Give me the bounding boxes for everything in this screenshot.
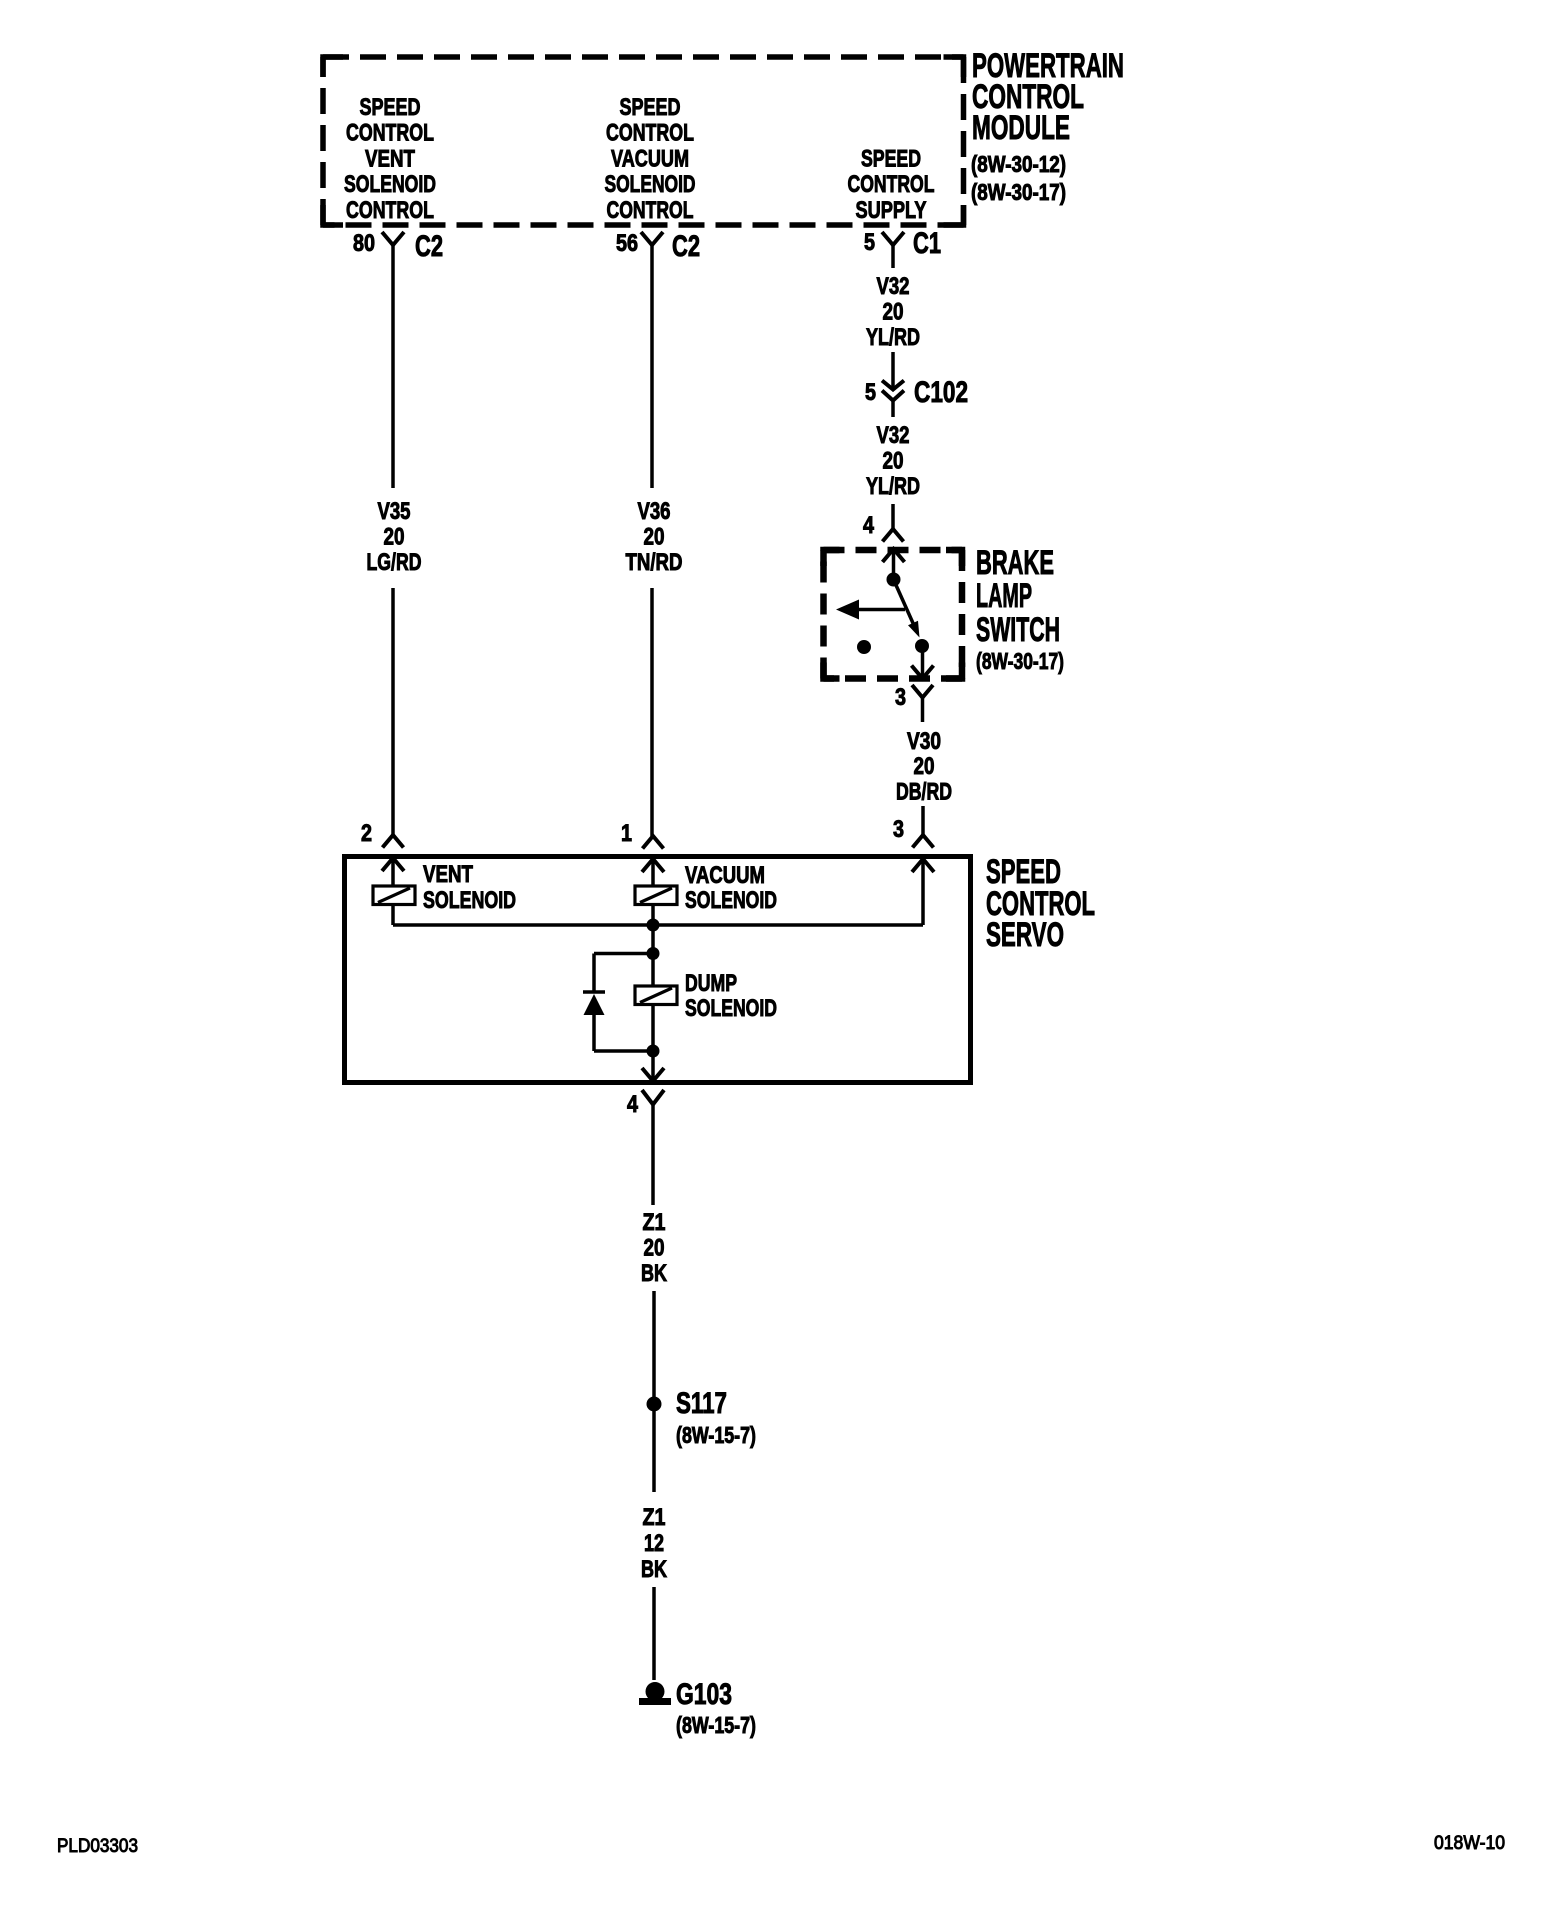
wire Z1 12 BK lower segment (652, 1587, 656, 1680)
clamp diode (583, 990, 605, 994)
vacuum solenoid (635, 886, 677, 905)
svg-text:CONTROL: CONTROL (607, 197, 694, 224)
svg-text:YL/RD: YL/RD (866, 324, 920, 351)
wire Z1 20 BK lower segment (652, 1291, 656, 1397)
svg-text:3: 3 (895, 684, 906, 711)
svg-text:1: 1 (621, 820, 632, 847)
svg-text:BK: BK (641, 1260, 667, 1287)
svg-text:(8W-15-7): (8W-15-7) (676, 1422, 756, 1448)
svg-text:56: 56 (616, 230, 638, 257)
svg-text:4: 4 (627, 1091, 639, 1118)
junction dot at bus (647, 919, 660, 932)
brake switch actuator arrow (left) (857, 608, 905, 612)
servo exit arrow pin 4 (642, 1068, 664, 1081)
svg-text:(8W-15-7): (8W-15-7) (676, 1712, 756, 1738)
svg-text:CONTROL: CONTROL (848, 171, 935, 198)
svg-text:S117: S117 (676, 1387, 727, 1420)
wire Z1 12 BK upper segment (652, 1411, 656, 1492)
servo pin 2 male arrow (382, 858, 404, 871)
svg-text:V30: V30 (907, 728, 941, 755)
svg-text:2: 2 (361, 820, 372, 847)
wire vent solenoid to bus (391, 905, 395, 926)
svg-text:VACUUM: VACUUM (685, 862, 765, 889)
svg-text:CONTROL: CONTROL (606, 120, 694, 147)
brake switch output contact node (915, 639, 929, 653)
servo pin 1 male arrow (642, 859, 664, 872)
wire dump solenoid to exit (651, 1005, 655, 1082)
svg-text:SWITCH: SWITCH (976, 611, 1060, 649)
ground G103 symbol (646, 1682, 665, 1701)
wire V36 lower segment (650, 588, 654, 836)
svg-text:SOLENOID: SOLENOID (605, 171, 696, 198)
svg-text:(8W-30-17): (8W-30-17) (976, 648, 1064, 674)
svg-text:V32: V32 (877, 422, 910, 449)
svg-text:C2: C2 (415, 230, 443, 263)
svg-text:LG/RD: LG/RD (367, 549, 422, 576)
brake switch movable blade with arrowhead (894, 580, 915, 627)
svg-text:80: 80 (353, 230, 375, 257)
svg-text:Z1: Z1 (643, 1504, 666, 1531)
svg-text:VENT: VENT (365, 145, 415, 172)
brake lamp switch dashed box (824, 550, 963, 679)
svg-text:SPEED: SPEED (861, 145, 921, 172)
svg-text:5: 5 (864, 229, 875, 256)
clamp diode branch (594, 952, 653, 956)
wire V36 upper segment (650, 245, 654, 488)
svg-text:018W-10: 018W-10 (1434, 1833, 1505, 1854)
ground bus inside servo (393, 923, 923, 927)
svg-text:20: 20 (644, 524, 665, 551)
wire V35 lower segment (391, 588, 395, 835)
svg-text:12: 12 (644, 1530, 664, 1557)
svg-text:YL/RD: YL/RD (866, 473, 920, 500)
svg-text:DB/RD: DB/RD (896, 779, 952, 806)
dump solenoid (635, 986, 677, 1005)
wire V35 upper segment (391, 245, 395, 488)
svg-text:20: 20 (883, 448, 904, 475)
wire V32 segment above C102 (891, 245, 895, 268)
svg-text:V32: V32 (877, 273, 910, 300)
speed control servo box (345, 857, 971, 1083)
wire vacuum solenoid through bus to dump (651, 905, 655, 987)
svg-text:Z1: Z1 (643, 1209, 666, 1236)
junction dot above dump solenoid (647, 947, 660, 960)
servo pin 3 riser (921, 859, 925, 925)
svg-text:SOLENOID: SOLENOID (685, 995, 777, 1022)
svg-text:SERVO: SERVO (986, 916, 1064, 954)
wire into C102 (891, 352, 895, 390)
servo pin 3 male arrow (912, 859, 934, 872)
brake switch fixed contact node (887, 573, 901, 587)
in-line connector C102 pin 5 (882, 381, 904, 390)
wire into brake lamp switch (891, 504, 895, 529)
svg-text:PLD03303: PLD03303 (57, 1836, 138, 1857)
splice S117 (647, 1397, 662, 1412)
svg-text:20: 20 (883, 299, 904, 326)
svg-text:(8W-30-17): (8W-30-17) (971, 179, 1066, 205)
svg-text:C2: C2 (672, 230, 700, 263)
svg-text:SOLENOID: SOLENOID (423, 887, 516, 914)
svg-text:4: 4 (863, 512, 875, 539)
svg-text:(8W-30-12): (8W-30-12) (971, 151, 1066, 177)
wire Z1 20 BK upper segment (651, 1105, 655, 1206)
svg-text:CONTROL: CONTROL (346, 120, 434, 147)
wire V30 lower segment (921, 806, 925, 835)
svg-text:BK: BK (641, 1556, 667, 1583)
svg-text:VENT: VENT (423, 861, 473, 888)
svg-text:VACUUM: VACUUM (611, 145, 689, 172)
svg-text:TN/RD: TN/RD (626, 549, 683, 576)
svg-text:SPEED: SPEED (620, 94, 681, 121)
svg-text:20: 20 (644, 1235, 665, 1262)
svg-text:20: 20 (384, 524, 405, 551)
svg-text:C1: C1 (913, 227, 941, 260)
svg-text:LAMP: LAMP (976, 577, 1032, 615)
svg-text:C102: C102 (914, 376, 968, 409)
brake switch lower-left contact node (857, 640, 871, 654)
PCM module dashed box (323, 57, 964, 225)
junction dot below dump solenoid (647, 1045, 660, 1058)
svg-text:20: 20 (914, 753, 935, 780)
svg-text:5: 5 (865, 379, 876, 406)
svg-text:3: 3 (893, 816, 904, 843)
svg-text:V36: V36 (638, 498, 671, 525)
svg-text:SOLENOID: SOLENOID (344, 171, 436, 198)
svg-text:MODULE: MODULE (972, 109, 1070, 147)
svg-text:SOLENOID: SOLENOID (685, 887, 777, 914)
brake switch output wire and exit arrow (921, 646, 925, 678)
svg-text:SUPPLY: SUPPLY (856, 197, 927, 224)
svg-text:DUMP: DUMP (685, 970, 737, 997)
svg-text:V35: V35 (378, 498, 411, 525)
svg-text:G103: G103 (676, 1678, 732, 1711)
svg-text:CONTROL: CONTROL (346, 197, 434, 224)
vent solenoid (373, 886, 415, 905)
brake switch input arrow (male, pin 4) (883, 549, 905, 562)
svg-text:SPEED: SPEED (360, 94, 421, 121)
